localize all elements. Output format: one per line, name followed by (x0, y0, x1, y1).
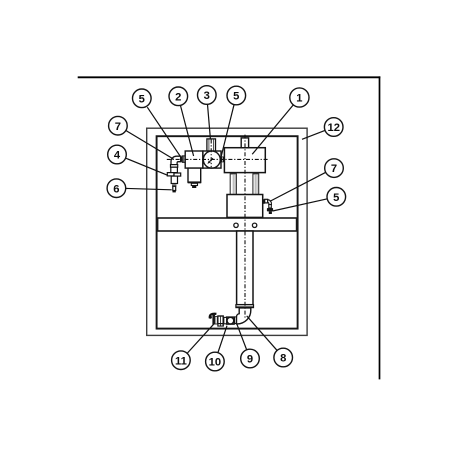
balloon 9 (241, 349, 260, 368)
balloon 7 right (325, 159, 344, 178)
right fitting square (265, 199, 268, 203)
shelf hole right (252, 223, 256, 227)
head port (241, 138, 248, 148)
bottom collar (236, 305, 254, 308)
svg-text:1: 1 (296, 93, 302, 105)
drain tip (192, 186, 196, 188)
svg-text:10: 10 (209, 357, 221, 369)
svg-text:9: 9 (247, 354, 253, 366)
balloon 5a (133, 89, 152, 108)
balloon 8 (274, 348, 293, 367)
balloon 2 (169, 87, 188, 106)
balloon 7 left (109, 116, 128, 135)
elbow nipple stripe (182, 156, 185, 162)
part4 collar (171, 165, 178, 168)
bottom elbow (236, 308, 250, 324)
leader to 7 left (126, 131, 173, 160)
leader to 6 (126, 188, 172, 189)
tie rod left (230, 174, 236, 195)
svg-text:3: 3 (204, 90, 210, 102)
part7 inlet elbow (171, 156, 181, 165)
centerline FRL horizontal (167, 158, 268, 160)
frame inner (157, 136, 298, 328)
connector sleeve (224, 317, 227, 323)
hose shank striped (217, 315, 224, 326)
balloon 1 (290, 88, 309, 107)
balloon 4 (108, 145, 127, 164)
svg-text:11: 11 (175, 355, 187, 367)
nipple to head (221, 157, 224, 163)
leader to 4 (125, 158, 167, 175)
leader to 10 (218, 326, 227, 353)
svg-text:7: 7 (331, 163, 337, 175)
centerline cylinder vertical (244, 135, 246, 320)
shelf bar (158, 218, 297, 231)
right fitting valve dark (267, 208, 273, 211)
balloon 12 (324, 118, 343, 137)
tie rod right (253, 174, 259, 195)
right fitting elbow (268, 200, 272, 205)
part6 valve body (171, 176, 177, 183)
balloon 5b (227, 86, 246, 105)
leader to 8 (247, 316, 278, 351)
gauge face (203, 151, 220, 168)
right fitting stem (269, 205, 272, 209)
filter bowl (188, 168, 201, 182)
part6 dark bands (172, 184, 176, 187)
leader to 9 (237, 324, 247, 350)
rod cap right (253, 173, 259, 174)
gauge block (203, 151, 221, 168)
cylinder tube (237, 231, 253, 305)
shelf hole left (234, 223, 238, 227)
right fitting nipple (263, 199, 265, 204)
svg-text:12: 12 (327, 122, 339, 134)
svg-text:5: 5 (333, 192, 339, 204)
svg-text:5: 5 (139, 93, 145, 105)
part4 flange right (174, 173, 181, 176)
balloon 3 (198, 86, 217, 105)
svg-text:8: 8 (280, 353, 286, 365)
leader to 2 (181, 106, 194, 156)
gauge needle (210, 158, 213, 161)
page right rule (379, 76, 381, 379)
elbow nipple dark (181, 156, 183, 161)
union ball (227, 317, 234, 324)
bowl drain (191, 183, 197, 185)
part1 cylinder head (224, 148, 265, 173)
part2 filter block (185, 151, 203, 168)
balloon 11 (172, 351, 191, 370)
leader to 5b (221, 105, 234, 157)
leader to 12 (302, 130, 325, 139)
page top rule (78, 76, 381, 78)
part4 flange left (167, 173, 174, 176)
balloon 10 (206, 352, 225, 371)
leader to 1 (252, 105, 293, 154)
right fitting tip (269, 211, 272, 214)
part6 stem (173, 186, 176, 190)
part6 tip (173, 191, 176, 193)
claw coupler bar (212, 315, 215, 325)
part3 riser (207, 139, 216, 151)
bowl lip (188, 182, 202, 184)
claw cam lever (210, 314, 217, 319)
leader to 3 (208, 104, 211, 138)
lower block (227, 195, 263, 218)
leader to 11 (187, 324, 214, 354)
centerline gauge vertical (210, 140, 212, 168)
leader to 7 right (270, 172, 326, 201)
rod cap left (230, 173, 237, 174)
union body (227, 317, 235, 324)
frame outer (147, 128, 307, 335)
part4 hex body (171, 167, 178, 172)
svg-text:6: 6 (113, 183, 119, 195)
ring nut (234, 316, 236, 324)
svg-text:5: 5 (233, 91, 239, 103)
svg-text:4: 4 (114, 150, 121, 162)
balloon 5 right (327, 188, 346, 207)
leader to 5a (147, 107, 180, 156)
svg-text:2: 2 (175, 91, 181, 103)
balloon 6 (107, 179, 126, 198)
leader to 5 right (273, 199, 328, 211)
claw coupler gap (215, 316, 217, 324)
svg-text:7: 7 (115, 121, 121, 133)
